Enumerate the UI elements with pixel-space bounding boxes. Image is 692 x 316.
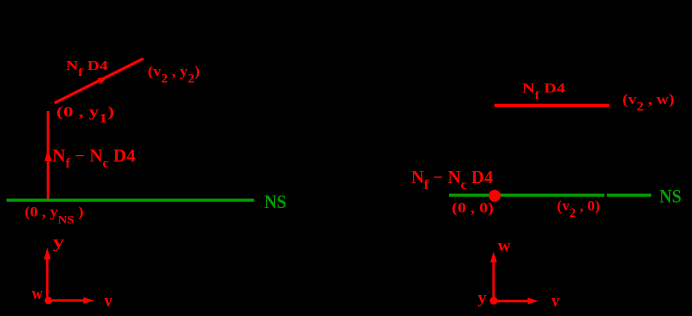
origin dot (y out of plane, right axes) (490, 297, 498, 305)
svg-text:v: v (551, 291, 559, 311)
right coordinate axes: v axis line (494, 300, 529, 302)
arrowhead y axis (44, 247, 51, 259)
node dot at (0,0) (489, 190, 501, 202)
svg-text:w: w (498, 236, 512, 255)
NS brane line (left) (7, 199, 255, 202)
wire: Nf D4 slanted brane segment (55, 59, 144, 104)
arrowhead on Nf-Nc D4 vertical segment (45, 149, 52, 162)
NS brane line (right, segment A) (449, 194, 604, 197)
svg-text:y: y (53, 233, 65, 252)
arrowhead w axis (490, 252, 497, 263)
arrowhead v axis (83, 297, 94, 304)
svg-text:v: v (104, 290, 112, 310)
svg-text:w: w (32, 284, 44, 303)
arrowhead v axis (right) (528, 298, 539, 305)
origin dot (w out of plane, left axes) (45, 297, 52, 304)
wire: Nf D4 horizontal brane segment (right) (494, 104, 609, 107)
left coordinate axes: v axis line (47, 299, 85, 301)
NS brane line (right, segment B) (607, 194, 651, 197)
arrowhead on Nf D4 slanted segment (98, 77, 108, 85)
svg-text:NS: NS (264, 192, 286, 213)
left coordinate axes: y axis line (46, 258, 48, 301)
wire: Nf-Nc D4 vertical brane segment (47, 111, 50, 200)
svg-text:NS: NS (659, 187, 681, 208)
svg-text:(0 , 0): (0 , 0) (452, 200, 494, 216)
svg-text:y: y (478, 288, 488, 307)
right coordinate axes: w axis line (492, 262, 494, 301)
